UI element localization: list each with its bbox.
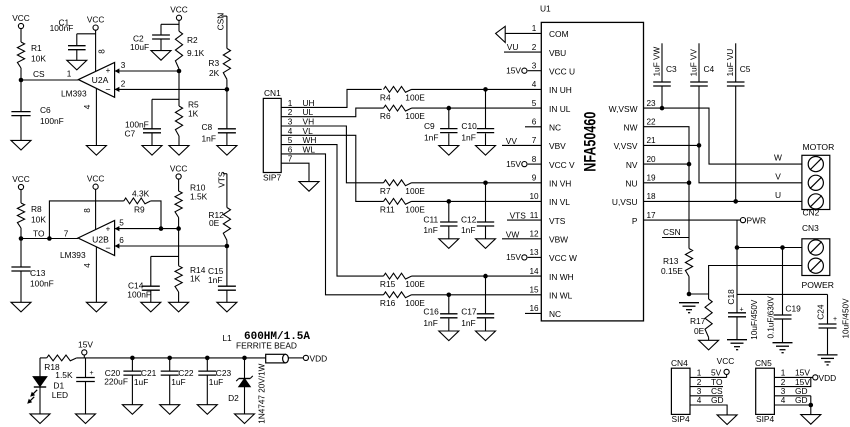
wire: [507, 219, 541, 221]
node VDD: [303, 353, 327, 363]
svg-text:8: 8: [532, 155, 537, 164]
svg-text:VCC V: VCC V: [549, 160, 575, 170]
pin 5 input: [115, 219, 125, 232]
resistor R1: [17, 42, 46, 68]
wire: [151, 201, 161, 229]
svg-text:C18: C18: [726, 289, 736, 305]
connector CN2 MOTOR: [802, 142, 834, 218]
svg-text:VV: VV: [506, 136, 518, 146]
pin name VBW: [549, 235, 568, 245]
junction: [483, 181, 488, 186]
pin 8 label: [98, 49, 107, 54]
pin 9 label: [532, 174, 537, 183]
svg-text:9.1K: 9.1K: [187, 48, 205, 58]
junction: [159, 226, 164, 231]
wire (NW/NV/NU bus): [644, 127, 690, 249]
wire: [226, 174, 228, 208]
svg-text:SIP4: SIP4: [672, 414, 690, 424]
svg-text:CN1: CN1: [264, 88, 281, 98]
IC U1: [540, 4, 644, 321]
svg-text:3: 3: [697, 387, 702, 396]
wire: [39, 387, 41, 414]
node PWR: [740, 215, 766, 225]
svg-text:+: +: [106, 225, 111, 234]
diode D2 (zener): [228, 363, 266, 423]
svg-text:+: +: [89, 370, 93, 377]
wire: [226, 79, 228, 89]
svg-text:C9: C9: [424, 121, 435, 131]
junction: [687, 181, 692, 186]
capacitor C22: [161, 358, 194, 405]
svg-text:C19: C19: [785, 304, 801, 314]
junction: [780, 245, 785, 250]
svg-text:1N4747 20V/1W: 1N4747 20V/1W: [257, 363, 266, 423]
pin 1 label: [532, 24, 537, 33]
junction: [225, 244, 230, 249]
svg-text:VW: VW: [506, 229, 520, 239]
svg-text:CN4: CN4: [671, 358, 688, 368]
capacitor C16: [423, 295, 457, 331]
wire: [83, 355, 85, 358]
svg-text:2: 2: [532, 43, 537, 52]
svg-text:VCC: VCC: [170, 5, 188, 15]
ground: [86, 302, 106, 312]
pin 20 label: [646, 155, 656, 164]
svg-text:1: 1: [781, 369, 786, 378]
wire: [412, 182, 542, 184]
svg-text:10uF: 10uF: [130, 42, 149, 52]
node VDD (CN5): [813, 373, 836, 383]
resistor R16: [380, 292, 425, 308]
resistor R13: [661, 249, 693, 277]
svg-text:VCC: VCC: [717, 356, 735, 366]
svg-text:R15: R15: [380, 279, 396, 289]
power 15V (pin3): [506, 66, 527, 76]
resistor R10: [175, 183, 208, 218]
svg-text:100nF: 100nF: [50, 23, 74, 33]
ground: [476, 331, 496, 341]
capacitor C14: [127, 256, 160, 302]
junction: [130, 356, 135, 361]
svg-text:1nF: 1nF: [424, 132, 438, 142]
svg-text:4: 4: [532, 80, 537, 89]
svg-text:1: 1: [288, 99, 293, 108]
svg-text:15: 15: [529, 286, 539, 295]
svg-text:R2: R2: [187, 35, 198, 45]
svg-text:C8: C8: [202, 122, 213, 132]
wire (CS): [690, 395, 723, 397]
pin name VBV: [549, 141, 566, 151]
pin 10 label: [529, 192, 539, 201]
pin 3 label: [288, 117, 314, 127]
svg-text:5: 5: [288, 136, 293, 145]
capacitor C23: [198, 358, 231, 405]
ground: [11, 140, 31, 150]
wire (UL): [281, 108, 383, 117]
capacitor C2: [130, 24, 170, 52]
pin name IN UH: [549, 85, 572, 95]
svg-text:R6: R6: [380, 111, 391, 121]
junction: [167, 356, 172, 361]
svg-text:15V: 15V: [506, 159, 521, 169]
svg-text:1nF: 1nF: [423, 225, 437, 235]
wire: [178, 229, 180, 266]
pin name IN VH: [549, 179, 571, 189]
resistor R12: [208, 208, 230, 241]
svg-text:IN UH: IN UH: [549, 85, 572, 95]
svg-text:7: 7: [532, 136, 537, 145]
svg-text:21: 21: [646, 136, 656, 145]
ground: [11, 302, 31, 312]
node VTS (pin11): [510, 211, 527, 221]
svg-text:SIP7: SIP7: [263, 173, 281, 183]
pin 3 label: [697, 386, 723, 396]
svg-text:1K: 1K: [188, 109, 199, 119]
svg-text:R4: R4: [380, 93, 391, 103]
connector CN1: [263, 88, 281, 183]
wire: [644, 182, 690, 184]
svg-text:6: 6: [288, 145, 293, 154]
power VCC (R8): [12, 174, 30, 190]
wire: [412, 88, 542, 90]
pin 23 label: [646, 99, 656, 108]
svg-text:4: 4: [83, 104, 92, 109]
svg-text:1nF: 1nF: [208, 275, 222, 285]
svg-text:2: 2: [121, 79, 126, 88]
ground: [169, 302, 189, 312]
wire: [178, 136, 180, 146]
svg-text:W,VSW: W,VSW: [609, 104, 638, 114]
pin 2 label: [781, 377, 811, 387]
pin 15 label: [529, 286, 539, 295]
pin 12 label: [529, 230, 539, 239]
svg-text:20: 20: [646, 155, 656, 164]
wire: [152, 98, 179, 100]
svg-text:1uF: 1uF: [171, 377, 185, 387]
pin 3 input: [115, 61, 126, 74]
wire: [412, 200, 542, 202]
connector CN4: [671, 358, 690, 424]
wire (bus): [737, 293, 828, 295]
node VV: [506, 136, 518, 146]
ground: [142, 146, 162, 156]
pin 21 label: [646, 136, 656, 145]
svg-text:0.15E: 0.15E: [661, 266, 683, 276]
svg-text:NV: NV: [626, 160, 638, 170]
svg-text:2: 2: [697, 378, 702, 387]
svg-text:1.5K: 1.5K: [190, 191, 208, 201]
svg-text:LED: LED: [52, 390, 68, 400]
svg-text:2: 2: [781, 378, 786, 387]
svg-text:FERRITE BEAD: FERRITE BEAD: [236, 341, 297, 351]
svg-text:C24: C24: [816, 304, 826, 320]
svg-text:VBU: VBU: [549, 48, 566, 58]
svg-text:R13: R13: [663, 256, 679, 266]
wire: [528, 70, 542, 72]
wire (WL): [281, 154, 383, 295]
wire: [244, 387, 246, 414]
wire (pin21 V): [644, 145, 802, 182]
pin 5 label: [288, 135, 317, 145]
wire (CN3 return): [709, 266, 802, 300]
svg-text:WL: WL: [303, 144, 316, 154]
wire: [178, 20, 180, 31]
pin 6 label: [288, 144, 316, 154]
svg-text:1.5K: 1.5K: [55, 370, 73, 380]
junction: [687, 292, 692, 297]
node CSN: [215, 13, 227, 31]
wire: [77, 33, 96, 35]
svg-text:10uF/450V: 10uF/450V: [750, 299, 759, 340]
ground: [717, 415, 737, 425]
pin 1 label: [288, 98, 315, 108]
svg-text:VCC: VCC: [12, 13, 30, 23]
wire (WH): [281, 145, 383, 277]
pin name VCC V: [549, 160, 575, 170]
wire: [49, 201, 123, 239]
ground: [439, 331, 459, 341]
wire: [737, 247, 802, 249]
ground: [86, 146, 106, 156]
svg-text:+: +: [106, 66, 111, 75]
svg-text:VU: VU: [507, 42, 519, 52]
ground: [141, 302, 161, 312]
ground: [197, 405, 217, 415]
svg-text:R1: R1: [31, 43, 42, 53]
svg-text:100E: 100E: [405, 186, 425, 196]
ground: [217, 146, 237, 156]
pin 6 input: [115, 236, 125, 249]
svg-text:1K: 1K: [190, 274, 201, 284]
resistor R9: [124, 189, 151, 215]
svg-text:TO: TO: [33, 229, 45, 239]
svg-text:C7: C7: [125, 129, 136, 139]
node VU: [507, 42, 519, 52]
wire: [95, 189, 97, 229]
pin 7 label: [532, 136, 537, 145]
svg-text:0E: 0E: [209, 218, 220, 228]
svg-text:15V: 15V: [78, 340, 93, 350]
svg-text:17: 17: [646, 211, 656, 220]
ground: [30, 414, 50, 424]
connector CN5: [755, 358, 774, 424]
wire (15V pins): [774, 377, 812, 386]
wire: [161, 23, 179, 25]
pin 3 label: [781, 386, 808, 396]
ground: [235, 414, 255, 424]
svg-text:1uF VU: 1uF VU: [726, 49, 735, 77]
svg-text:1uF: 1uF: [134, 377, 148, 387]
pin 8 label: [83, 208, 92, 213]
power VCC (R1): [12, 13, 30, 29]
wire: [178, 179, 180, 191]
svg-text:CN2: CN2: [803, 208, 820, 218]
junction: [697, 143, 702, 148]
wire: [525, 126, 541, 128]
junction: [809, 403, 814, 408]
svg-text:NU: NU: [625, 179, 637, 189]
svg-text:U1: U1: [540, 4, 551, 14]
resistor R18: [44, 355, 76, 380]
wire: [412, 275, 542, 277]
svg-text:100nF: 100nF: [40, 116, 64, 126]
wire (5V): [690, 375, 727, 378]
svg-text:14: 14: [529, 267, 539, 276]
svg-text:10: 10: [529, 192, 539, 201]
pin name NW: [624, 123, 638, 133]
wire (pin23 W): [644, 108, 802, 164]
wire: [20, 29, 22, 42]
svg-text:0.1uF/630V: 0.1uF/630V: [767, 296, 776, 339]
ground: [217, 302, 237, 312]
wire: [226, 16, 228, 48]
svg-text:1nF: 1nF: [461, 318, 475, 328]
svg-text:11: 11: [530, 211, 539, 220]
junction: [447, 199, 452, 204]
junction: [687, 162, 692, 167]
svg-text:CSN: CSN: [663, 227, 681, 237]
earth ground: [773, 343, 793, 353]
svg-text:1: 1: [532, 24, 537, 33]
svg-text:VCC: VCC: [87, 14, 105, 24]
svg-text:C17: C17: [461, 307, 477, 317]
pin name U,VSU: [612, 197, 638, 207]
power VCC (U2A pin8): [87, 14, 105, 30]
inductor L1 (ferrite bead): [222, 331, 310, 363]
junction: [483, 87, 488, 92]
junction: [225, 87, 230, 92]
wire (pin18 U): [644, 190, 802, 202]
pin name VBU: [549, 48, 566, 58]
svg-text:POWER: POWER: [802, 280, 834, 290]
wire: [151, 255, 179, 257]
wire (UH): [281, 89, 382, 107]
ground: [801, 415, 821, 425]
resistor R17: [690, 299, 712, 337]
pin 22 label: [646, 118, 656, 127]
svg-text:100nF: 100nF: [30, 279, 54, 289]
svg-text:IN UL: IN UL: [549, 104, 571, 114]
pin name P: [632, 216, 638, 226]
pin 2 label: [532, 43, 537, 52]
svg-text:7: 7: [64, 230, 69, 239]
wire: [504, 51, 541, 53]
svg-text:PWR: PWR: [747, 215, 767, 225]
pin 14 label: [529, 267, 539, 276]
svg-text:CSN: CSN: [215, 13, 225, 31]
ground: [67, 60, 87, 70]
capacitor C9: [424, 108, 458, 145]
pin 1 label: [697, 368, 722, 378]
wire: [178, 218, 180, 229]
junction: [483, 274, 488, 279]
svg-text:10K: 10K: [31, 215, 46, 225]
junction: [447, 293, 452, 298]
svg-text:NW: NW: [624, 123, 638, 133]
svg-text:C3: C3: [666, 64, 677, 74]
pin 13 label: [529, 248, 539, 257]
wire: [20, 68, 22, 80]
pin name IN VL: [549, 197, 570, 207]
LED D1: [27, 377, 68, 404]
svg-text:V: V: [775, 171, 781, 181]
wire: [20, 190, 22, 203]
capacitor C21: [123, 358, 156, 405]
svg-text:P: P: [632, 216, 638, 226]
pin name VCC W: [549, 253, 577, 263]
svg-text:15V: 15V: [506, 66, 521, 76]
svg-text:NC: NC: [549, 309, 561, 319]
svg-text:V,VSV: V,VSV: [614, 141, 638, 151]
svg-text:C4: C4: [704, 64, 715, 74]
svg-text:VCC: VCC: [170, 163, 188, 173]
svg-text:MOTOR: MOTOR: [803, 142, 835, 152]
svg-text:1nF: 1nF: [423, 318, 437, 328]
svg-text:6: 6: [532, 118, 537, 127]
resistor R3: [208, 48, 230, 79]
power VCC (U2B pin8): [87, 174, 105, 190]
ground: [169, 146, 189, 156]
wire: [688, 277, 690, 295]
svg-text:VCC U: VCC U: [549, 67, 575, 77]
svg-text:100nF: 100nF: [127, 290, 151, 300]
wire (GD pins): [774, 396, 810, 415]
svg-text:VTS: VTS: [510, 211, 527, 221]
capacitor C7: [125, 99, 162, 145]
pin 5 label: [532, 99, 537, 108]
pin name NC: [549, 123, 561, 133]
pin 6 label: [532, 118, 537, 127]
capacitor C3: [653, 43, 678, 108]
wire: [39, 358, 41, 377]
svg-text:SIP4: SIP4: [756, 414, 774, 424]
pin 4 label: [288, 126, 313, 136]
svg-text:13: 13: [529, 248, 539, 257]
resistor R11: [380, 199, 425, 215]
junction: [733, 199, 738, 204]
svg-text:C5: C5: [740, 64, 751, 74]
svg-text:100E: 100E: [405, 93, 425, 103]
svg-text:1uF: 1uF: [209, 377, 223, 387]
svg-text:LM393: LM393: [60, 250, 86, 260]
svg-text:5: 5: [532, 99, 537, 108]
junction: [47, 236, 52, 241]
node VTS: [217, 171, 227, 188]
wire: [115, 88, 227, 90]
wire (VL): [281, 135, 383, 201]
junction: [177, 69, 182, 74]
ground: [439, 239, 459, 249]
junction: [660, 106, 665, 111]
wire: [288, 357, 303, 359]
svg-text:23: 23: [646, 99, 656, 108]
svg-text:−: −: [105, 85, 110, 95]
svg-text:8: 8: [83, 208, 92, 213]
ground: [122, 405, 142, 415]
svg-text:R7: R7: [380, 186, 391, 196]
svg-text:4: 4: [697, 396, 702, 405]
junction: [205, 356, 210, 361]
svg-text:+: +: [833, 316, 837, 323]
svg-text:C6: C6: [40, 105, 51, 115]
wire: [644, 163, 690, 165]
node VW: [506, 229, 520, 239]
svg-text:VBV: VBV: [549, 141, 566, 151]
pin name W,VSW: [609, 104, 638, 114]
node TO: [19, 229, 45, 241]
svg-text:1: 1: [697, 369, 702, 378]
pin 2 label: [288, 107, 314, 117]
